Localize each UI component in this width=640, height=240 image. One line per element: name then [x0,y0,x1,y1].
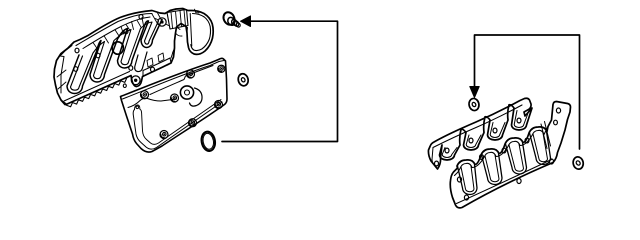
callout line (screw to O-ring) [222,21,338,141]
washer under down-arrow [468,98,480,112]
callout line (washer to washer) [475,35,580,149]
washer right end [572,156,584,170]
washer mid-left [237,73,249,87]
right front heat shield [450,102,570,208]
left callout bracket [222,16,338,142]
right callout bracket [470,35,580,149]
arrowhead at washer [470,87,479,98]
arrowhead at screw [241,16,251,27]
O-ring [200,131,216,152]
left upper heat shield [54,9,213,107]
left lower baffle plate [121,58,228,152]
screw [221,10,241,27]
right back heat shield [428,98,532,169]
